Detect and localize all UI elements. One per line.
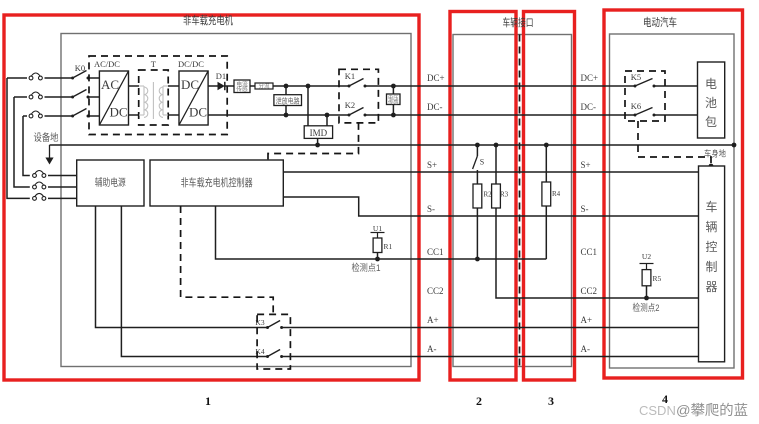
svg-text:器: 器 — [705, 280, 717, 294]
svg-text:DC-: DC- — [581, 102, 597, 112]
wire A- from auxiliary supply — [121, 206, 267, 357]
svg-text:车: 车 — [705, 199, 717, 214]
dashed control link contactors to controller — [268, 123, 359, 160]
svg-text:3: 3 — [548, 394, 554, 408]
svg-text:IMD: IMD — [310, 128, 328, 138]
shunt block — [255, 82, 273, 90]
svg-text:辅助电源: 辅助电源 — [95, 176, 126, 189]
wire phase A drop to aux feed 3 — [7, 78, 30, 198]
svg-text:泄放电路: 泄放电路 — [276, 96, 300, 105]
svg-text:电: 电 — [705, 77, 717, 91]
wire phase C input — [23, 115, 27, 117]
wire phase B input — [14, 96, 27, 98]
wire bleeder bottom stub — [285, 106, 287, 116]
wire R2 to CC1 — [476, 208, 478, 259]
dashed control link controller to K3 K4 — [181, 206, 274, 314]
svg-text:U1: U1 — [373, 224, 382, 233]
converter DC/DC — [179, 71, 208, 125]
svg-text:分流: 分流 — [259, 82, 270, 90]
svg-text:传感: 传感 — [236, 85, 248, 93]
wire voltage sensor top stub — [392, 86, 394, 94]
wire phase B drop to aux feed 2 — [14, 97, 30, 187]
voltage source U1 — [371, 224, 385, 238]
svg-text:控: 控 — [705, 240, 717, 254]
wire phase C to K0 — [45, 115, 73, 117]
electric vehicle enclosure box — [610, 34, 735, 368]
wire K0 pole A to AC/DC — [88, 77, 99, 79]
wire aux feed 3 to auxiliary supply — [48, 197, 77, 199]
wire transformer to DC/DC bottom — [168, 114, 179, 116]
resistor R2 — [473, 184, 482, 208]
svg-text:A+: A+ — [427, 315, 439, 325]
contactor K6 — [634, 108, 656, 117]
svg-text:K6: K6 — [631, 101, 641, 111]
red region box 4 electric vehicle — [604, 10, 743, 378]
wire K0 pole B to AC/DC — [88, 96, 99, 98]
node R2 CC1 junction — [475, 257, 480, 262]
dashed box contactors K3 K4 — [257, 314, 290, 369]
wire IMD negative sense — [326, 115, 328, 126]
node DC- voltage sensor tap — [391, 113, 396, 118]
svg-text:R1: R1 — [384, 242, 393, 251]
svg-text:S-: S- — [581, 204, 589, 214]
contactor K2 — [348, 108, 367, 117]
svg-text:D1: D1 — [216, 71, 226, 81]
wire PE bus — [50, 144, 735, 146]
svg-text:池: 池 — [705, 96, 717, 110]
red region box 1 off-board charger — [4, 15, 419, 380]
svg-text:T: T — [151, 59, 157, 69]
off-board charger enclosure box — [61, 34, 411, 367]
diode D1 — [218, 82, 225, 90]
wire A- bus to vehicle — [282, 356, 699, 358]
node DC- IMD tap — [325, 113, 330, 118]
dashed link K5 K6 to vehicle body ground — [638, 121, 711, 166]
node detection point 2 — [644, 296, 649, 301]
svg-text:R2: R2 — [484, 191, 493, 199]
svg-text:2: 2 — [476, 394, 482, 408]
svg-text:U2: U2 — [642, 252, 651, 261]
wire IMD positive sense — [307, 86, 309, 126]
dashed enclosure power stage — [89, 56, 227, 135]
breaker aux feed 3 — [33, 193, 46, 200]
switch K0 pole C — [71, 109, 89, 118]
wire bleeder top stub — [285, 86, 287, 95]
svg-text:检测点2: 检测点2 — [633, 302, 660, 314]
node DC+ IMD tap — [306, 84, 311, 89]
node vehicle controller ground — [709, 164, 714, 169]
contactor K4 — [266, 350, 283, 359]
contactor K3 — [266, 321, 283, 330]
svg-text:S: S — [480, 158, 484, 167]
svg-text:DC/DC: DC/DC — [178, 59, 204, 69]
vehicle interface split dashed line — [519, 35, 521, 367]
vehicle interface enclosure box — [453, 35, 572, 367]
red region box 3 vehicle inlet — [524, 12, 575, 381]
svg-text:CSDN: CSDN — [639, 403, 676, 418]
wire A+ bus to vehicle — [282, 327, 699, 329]
wire phase B to K0 — [45, 96, 73, 98]
svg-text:辆: 辆 — [705, 220, 717, 234]
off-board charge controller block — [150, 160, 283, 206]
svg-text:包: 包 — [705, 115, 717, 129]
svg-text:CC1: CC1 — [581, 247, 598, 257]
svg-text:1: 1 — [205, 394, 211, 408]
breaker phase A — [29, 73, 42, 80]
svg-text:CC2: CC2 — [581, 286, 598, 296]
wire DC- K2 to vehicle — [365, 114, 635, 116]
wire A+ from auxiliary supply — [96, 206, 268, 328]
wire aux feed 1 to auxiliary supply — [48, 175, 77, 177]
wire AC/DC to transformer bottom — [129, 114, 140, 116]
wire K5 to battery — [654, 85, 698, 87]
resistor R1 — [373, 238, 382, 253]
svg-text:K5: K5 — [631, 72, 641, 82]
svg-text:S+: S+ — [581, 160, 591, 170]
svg-text:R3: R3 — [500, 191, 509, 199]
node PE at vehicle body — [732, 143, 737, 148]
svg-text:DC: DC — [181, 77, 199, 92]
svg-text:车身地: 车身地 — [704, 149, 726, 159]
svg-text:DC-: DC- — [427, 102, 443, 112]
wire aux feed 2 to auxiliary supply — [48, 186, 77, 188]
switch K0 pole B — [71, 90, 89, 99]
svg-text:S+: S+ — [427, 160, 437, 170]
svg-text:AC: AC — [101, 77, 119, 92]
wire DC+ K1 to vehicle — [365, 85, 635, 87]
svg-text:CC2: CC2 — [427, 286, 444, 296]
svg-text:A-: A- — [581, 344, 591, 354]
svg-text:车辆接口: 车辆接口 — [503, 16, 534, 29]
wire DC+ rail shunt to K1 — [273, 85, 349, 87]
current sensor block — [234, 80, 250, 93]
wire CC1 bus — [216, 206, 547, 259]
resistor R5 — [642, 270, 651, 286]
svg-text:K2: K2 — [345, 100, 355, 110]
ground arrow equipment earth — [45, 145, 53, 165]
resistor R4 — [542, 182, 551, 206]
node detection point 1 — [375, 257, 380, 262]
node DC+ bleeder tap — [284, 84, 289, 89]
voltage sensor block — [387, 93, 401, 105]
svg-text:非车载充电机: 非车载充电机 — [183, 13, 233, 27]
node DC- bleeder tap — [284, 113, 289, 118]
auxiliary power supply block — [77, 160, 144, 206]
svg-text:DC: DC — [189, 105, 207, 120]
svg-text:S-: S- — [427, 204, 435, 214]
IMD block — [304, 126, 332, 139]
wire DC/DC negative output to K2 — [208, 114, 349, 116]
dashed box contactors K1 K2 — [339, 69, 378, 123]
transformer T windings — [139, 82, 168, 119]
node DC+ voltage sensor tap — [391, 84, 396, 89]
svg-text:DC+: DC+ — [581, 73, 599, 83]
svg-text:检测点1: 检测点1 — [352, 262, 381, 274]
dashed box contactors K5 K6 — [625, 71, 665, 121]
switch S — [473, 156, 478, 169]
svg-text:非车载充电机控制器: 非车载充电机控制器 — [181, 176, 253, 189]
red region box 2 supply plug — [450, 12, 516, 381]
switch K0 pole A — [71, 71, 89, 80]
node PE tap switch S — [475, 143, 480, 148]
node PE tap R3 — [494, 143, 499, 148]
svg-text:A+: A+ — [581, 315, 593, 325]
breaker aux feed 1 — [33, 171, 46, 178]
svg-text:DC: DC — [109, 105, 127, 120]
wire S branch to R2 — [476, 170, 478, 184]
wire S- bus with step — [283, 197, 698, 216]
breaker phase C — [29, 111, 42, 118]
wire IMD to PE — [317, 138, 319, 145]
node PE tap R4 — [544, 143, 549, 148]
wire phase C drop to aux feed 1 — [23, 116, 30, 176]
wire current sensor to shunt — [250, 85, 255, 87]
converter AC/DC — [99, 71, 128, 125]
resistor R3 — [492, 184, 501, 208]
breaker phase B — [29, 92, 42, 99]
svg-text:R5: R5 — [653, 274, 662, 283]
dashed box transformer T — [139, 70, 169, 125]
wire phase A input — [7, 77, 27, 79]
bleed circuit block — [274, 95, 302, 106]
svg-text:AC/DC: AC/DC — [94, 59, 120, 69]
wire AC/DC to transformer top — [129, 85, 140, 87]
wire PE to R4 — [545, 145, 547, 182]
wire R3 to CC2 bus — [496, 208, 699, 298]
wire R5 to CC2 — [646, 286, 648, 298]
wire voltage sensor bottom stub — [392, 105, 394, 116]
breaker aux feed 2 — [33, 182, 46, 189]
svg-text:设备地: 设备地 — [34, 131, 59, 144]
svg-text:R4: R4 — [552, 190, 561, 198]
svg-text:A-: A- — [427, 344, 437, 354]
wire R1 to CC1 — [377, 253, 379, 260]
wire DC/DC output to diode D1 — [208, 85, 217, 87]
wire phase A to K0 — [45, 77, 73, 79]
wire PE to R3 — [495, 145, 497, 184]
battery pack block — [698, 62, 725, 138]
contactor K1 — [348, 79, 367, 88]
voltage source U2 — [640, 252, 654, 270]
svg-text:制: 制 — [705, 260, 717, 274]
svg-text:@攀爬的蓝: @攀爬的蓝 — [676, 402, 748, 418]
wire transformer to DC/DC top — [168, 85, 179, 87]
wire R4 to CC1 — [545, 206, 547, 259]
contactor K5 — [634, 79, 656, 88]
wire S branch upper — [476, 145, 478, 156]
svg-text:DC+: DC+ — [427, 73, 445, 83]
wire S+ bus — [283, 171, 698, 173]
svg-text:CC1: CC1 — [427, 247, 444, 257]
wire K6 to battery — [654, 114, 698, 116]
wire D1 to current sensor — [225, 85, 234, 87]
svg-text:电动汽车: 电动汽车 — [643, 15, 677, 29]
svg-text:K1: K1 — [345, 71, 355, 81]
wire K0 pole C to AC/DC — [88, 115, 99, 117]
vehicle controller block — [699, 166, 725, 362]
node IMD PE junction — [315, 143, 320, 148]
